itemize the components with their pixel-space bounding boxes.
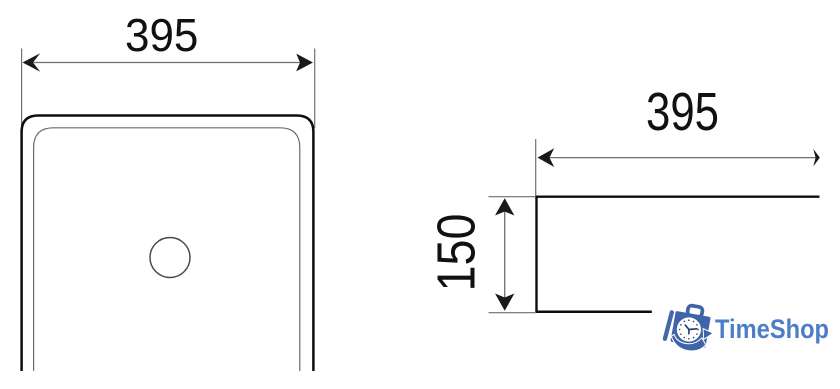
dimension line 150	[504, 205, 506, 303]
sink inner rim	[34, 128, 300, 371]
drain hole	[150, 238, 190, 278]
arrowhead left	[23, 53, 41, 72]
sink outer rim	[22, 116, 314, 372]
arrowhead left (side dim)	[538, 148, 555, 167]
bag body	[670, 311, 710, 348]
arrowhead up	[495, 198, 514, 215]
bag handle	[687, 305, 703, 317]
swoosh arrow tail	[671, 334, 706, 351]
swoosh arrowhead	[703, 329, 713, 340]
svg-text:395: 395	[646, 83, 719, 142]
side profile bottom line	[535, 310, 651, 313]
side profile left line	[535, 196, 537, 313]
extension line top (horizontal)	[489, 196, 537, 198]
svg-text:TimeShop: TimeShop	[715, 314, 829, 344]
bag back stripe	[665, 312, 672, 338]
arrowhead right	[296, 54, 313, 72]
clock face	[677, 317, 701, 341]
extension line (vertical, left of side dim)	[535, 139, 537, 199]
extension line right	[314, 49, 316, 129]
extension line bottom (horizontal)	[489, 312, 537, 314]
svg-text:395: 395	[125, 9, 198, 61]
arrowhead down	[495, 294, 514, 311]
side profile top line	[536, 195, 820, 197]
arrowhead right (side dim, stubby)	[813, 149, 820, 167]
clock ticks	[679, 319, 699, 339]
extension line left	[21, 49, 23, 129]
dimension line 395	[30, 62, 305, 64]
clock hands	[685, 325, 697, 334]
svg-text:150: 150	[428, 214, 487, 292]
dimension line 395 side	[545, 157, 816, 159]
